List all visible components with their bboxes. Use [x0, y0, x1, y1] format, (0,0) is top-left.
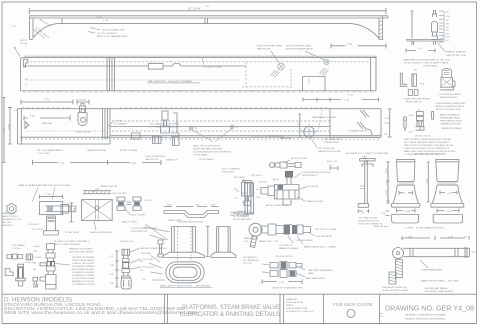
- svg-text:DRAIN PLUG OR: DRAIN PLUG OR: [100, 185, 118, 188]
- svg-text:VALVE 1/8" STAINLESS STEEL: VALVE 1/8" STAINLESS STEEL: [272, 287, 304, 290]
- svg-text:OF THE CONNECTOR AND: OF THE CONNECTOR AND: [72, 277, 95, 280]
- svg-text:5/16: 5/16: [409, 115, 414, 117]
- svg-text:HOLE FOR RIGHT HAND: HOLE FOR RIGHT HAND: [257, 45, 283, 48]
- svg-text:SOLDER 8BA NUTS OR UNDERSIDE: SOLDER 8BA NUTS OR UNDERSIDE: [193, 151, 231, 154]
- svg-text:27 SAY PENN: 27 SAY PENN: [65, 231, 79, 234]
- svg-text:1 1/2: 1 1/2: [427, 178, 429, 184]
- svg-text:CUT AWAY FOR: CUT AWAY FOR: [324, 138, 341, 141]
- svg-text:CENT: CENT: [143, 227, 150, 229]
- svg-text:EARLY SAFETY VALVE COVER — CAB: EARLY SAFETY VALVE COVER — CAB CASTING: [160, 284, 210, 287]
- svg-text:1 x 5/16: 1 x 5/16: [144, 200, 153, 202]
- svg-text:'ON': 'ON': [274, 241, 279, 243]
- svg-text:SLIDE SQUARE JUMP: SLIDE SQUARE JUMP: [102, 29, 125, 32]
- svg-text:INTO PIPE TOP: INTO PIPE TOP: [131, 231, 147, 233]
- svg-text:PAINTED WHITE: PAINTED WHITE: [440, 96, 458, 99]
- svg-text:THREAD BODY 1/4x40 CENTRALLY: THREAD BODY 1/4x40 CENTRALLY: [69, 248, 93, 251]
- svg-text:1/16 7/32 1/4 3/16: 1/16 7/32 1/4 3/16: [275, 256, 293, 258]
- svg-text:OF TRAVEL POINTS: OF TRAVEL POINTS: [72, 283, 95, 286]
- svg-text:5/32x40 UNION: 5/32x40 UNION: [316, 236, 332, 238]
- svg-text:1/32 PLUG: 1/32 PLUG: [32, 229, 43, 231]
- svg-text:1/8: 1/8: [110, 274, 114, 276]
- svg-text:LOCK NUT: LOCK NUT: [28, 224, 40, 226]
- svg-text:7 1/8: 7 1/8: [344, 100, 350, 102]
- svg-text:THICKNESS OF PLATE AND: THICKNESS OF PLATE AND: [72, 256, 95, 259]
- svg-text:GLUED SPLINE IN SHAFT: GLUED SPLINE IN SHAFT: [382, 289, 409, 292]
- svg-text:TWO DRAIN: TWO DRAIN: [12, 244, 25, 247]
- svg-text:OF 1/4" 67SWG TO USE OF SAFETY: OF 1/4" 67SWG TO USE OF SAFETY VALVE: [404, 62, 449, 65]
- svg-text:THROUGH HOLE A TO FIX UP 67MM: THROUGH HOLE A TO FIX UP 67MM BLOCK: [404, 147, 450, 150]
- svg-text:RACE FITTED 2: RACE FITTED 2: [2, 215, 19, 218]
- svg-text:STEAM PIPES: STEAM PIPES: [324, 141, 339, 144]
- svg-text:SEE REMT UNDERSIDE: SEE REMT UNDERSIDE: [308, 270, 333, 272]
- svg-text:SCALE: SCALE: [286, 304, 294, 307]
- svg-text:2 1/4: 2 1/4: [103, 20, 109, 22]
- svg-text:5/16: 5/16: [446, 16, 451, 18]
- svg-text:1 1/2: 1 1/2: [46, 194, 52, 196]
- svg-text:FRAME BALL: FRAME BALL: [2, 212, 16, 215]
- svg-text:SIXTEENTH TO ONE FOOT: SIXTEENTH TO ONE FOOT: [286, 311, 315, 313]
- svg-text:7 5/8: 7 5/8: [387, 180, 389, 186]
- svg-text:PLATFORMS, STEAM BRAKE VALVE: PLATFORMS, STEAM BRAKE VALVE: [182, 304, 280, 311]
- svg-text:PLATFORM LAMP IRONS: PLATFORM LAMP IRONS: [404, 97, 430, 100]
- svg-text:BRAKE VALVE BODY — BRASS: BRAKE VALVE BODY — BRASS: [304, 246, 337, 249]
- svg-text:3/8: 3/8: [110, 283, 114, 285]
- svg-text:TANK BAY: TANK BAY: [42, 122, 53, 125]
- svg-text:5/16 x 1/4 BRASS: 5/16 x 1/4 BRASS: [222, 168, 240, 171]
- svg-text:INTO VALVE. BRONZE CHECK IF TH: INTO VALVE. BRONZE CHECK IF THE BMY-2: [404, 141, 450, 144]
- svg-text:1 7/16: 1 7/16: [446, 193, 453, 195]
- svg-text:7 5/8: 7 5/8: [384, 123, 390, 125]
- svg-text:—: —: [254, 265, 257, 267]
- svg-text:C: C: [379, 313, 383, 319]
- svg-text:3 1/2: 3 1/2: [97, 17, 103, 19]
- svg-text:3 HIDE OF 1/8: 3 HIDE OF 1/8: [236, 211, 251, 213]
- svg-text:ALTN: ALTN: [273, 178, 279, 181]
- svg-text:TO FIX SEATS: TO FIX SEATS: [199, 158, 214, 161]
- svg-text:BENT TO FIT HANGER PLATE: BENT TO FIT HANGER PLATE: [97, 35, 128, 38]
- svg-text:8 x 40N: 8 x 40N: [114, 121, 122, 123]
- svg-text:WITH TURN CAST: WITH TURN CAST: [233, 218, 252, 221]
- svg-text:7/16: 7/16: [256, 197, 261, 199]
- svg-text:1 7/8: 1 7/8: [279, 282, 285, 284]
- svg-text:4 OFF 8BA CSK SCREWS TO FIX: 4 OFF 8BA CSK SCREWS TO FIX: [412, 153, 446, 156]
- svg-text:5/32 PIPE TO: 5/32 PIPE TO: [279, 245, 293, 247]
- svg-text:LOCO MODEL LAMPS: LOCO MODEL LAMPS: [438, 93, 461, 96]
- svg-text:1/4: 1/4: [464, 237, 468, 239]
- svg-text:BRASS PLUG: BRASS PLUG: [244, 237, 258, 240]
- svg-text:3/16: 3/16: [242, 193, 247, 195]
- svg-text:16 swg: 16 swg: [20, 43, 28, 45]
- svg-text:1/8 1/16 OR 1/4: 1/8 1/16 OR 1/4: [415, 136, 431, 138]
- svg-text:7/8: 7/8: [236, 191, 240, 193]
- svg-text:5/32x40: 5/32x40: [310, 186, 319, 188]
- svg-text:CUT HOLE FOR: CUT HOLE FOR: [318, 148, 335, 150]
- svg-text:2 5/8: 2 5/8: [131, 163, 137, 165]
- svg-text:30° TOP: 30° TOP: [243, 263, 252, 265]
- svg-text:7 7/8: 7 7/8: [44, 99, 50, 101]
- svg-text:1: 1: [405, 193, 407, 195]
- svg-text:UPDATED DESIGN BY DOUG HEWSON: UPDATED DESIGN BY DOUG HEWSON: [405, 318, 446, 321]
- svg-text:4'-3": 4'-3": [12, 26, 17, 28]
- svg-text:1/2: 1/2: [234, 198, 238, 200]
- svg-text:5/16 x 1/4: 5/16 x 1/4: [327, 161, 337, 163]
- svg-text:5/16x40 UNION & 5/32 PIPE: 5/16x40 UNION & 5/32 PIPE: [302, 172, 331, 174]
- svg-text:WEB SITE www.the-hewsons.co.u: WEB SITE www.the-hewsons.co.uk and E Mai…: [4, 310, 198, 315]
- svg-text:1 1/4: 1 1/4: [348, 95, 354, 97]
- svg-text:1/4: 1/4: [472, 252, 476, 254]
- svg-text:COVER BAND: COVER BAND: [423, 65, 438, 68]
- svg-text:7/8: 7/8: [142, 279, 146, 281]
- svg-text:MUST REMAIN THE SAME.: MUST REMAIN THE SAME.: [72, 268, 95, 271]
- svg-text:2 1/8: 2 1/8: [448, 237, 454, 239]
- svg-text:DUCT COVER: DUCT COVER: [131, 215, 146, 217]
- svg-text:(TAPESTRY WHEEL): (TAPESTRY WHEEL): [441, 127, 462, 130]
- svg-text:NO DRILL HOLE AND CENTRALLY: NO DRILL HOLE AND CENTRALLY: [54, 240, 90, 243]
- svg-text:BRASS ROD: BRASS ROD: [236, 213, 249, 216]
- svg-text:ALTN OIL HOLE: ALTN OIL HOLE: [291, 157, 308, 160]
- svg-text:1 9x16 HOLES FOR: 1 9x16 HOLES FOR: [145, 156, 165, 158]
- svg-text:TANK FILLER: TANK FILLER: [257, 48, 271, 51]
- svg-text:ORIGINALLY DESIGNED BY RON BRA: ORIGINALLY DESIGNED BY RON BRAY: [405, 314, 446, 317]
- svg-text:COVER — IN CAST BRASS OR STEEL: COVER — IN CAST BRASS OR STEEL: [405, 227, 445, 230]
- svg-text:SAND 'D' RING: SAND 'D' RING: [122, 221, 137, 224]
- svg-text:1/4 WATER VALVE: 1/4 WATER VALVE: [348, 130, 367, 133]
- svg-text:SAND HOPPER EYES: SAND HOPPER EYES: [90, 231, 113, 234]
- svg-text:1/4: 1/4: [256, 189, 260, 191]
- svg-text:LUBRICATOR & PAINTING DETAILS: LUBRICATOR & PAINTING DETAILS: [180, 311, 280, 318]
- svg-text:1/8" x 1/8" BRASS ANGLE: 1/8" x 1/8" BRASS ANGLE: [37, 149, 63, 152]
- svg-text:CUT AT ANGLE: CUT AT ANGLE: [243, 259, 259, 262]
- svg-text:BRAKE 'OFF': BRAKE 'OFF': [259, 240, 273, 243]
- svg-text:5/16x32 x 1/8: 5/16x32 x 1/8: [120, 241, 134, 243]
- svg-text:1 3/16: 1 3/16: [346, 44, 353, 46]
- svg-text:DETERMINED BY LOCATION: DETERMINED BY LOCATION: [72, 274, 95, 277]
- svg-text:1/4: 1/4: [382, 213, 386, 215]
- svg-text:1 1/4 OIL: 1 1/4 OIL: [78, 100, 88, 102]
- svg-text:DOWN SHUTS FOR: DOWN SHUTS FOR: [358, 221, 379, 223]
- svg-text:BALL SEATS ALTN: BALL SEATS ALTN: [306, 277, 325, 280]
- svg-text:NUT HOLE: NUT HOLE: [234, 177, 246, 179]
- svg-text:HALF: HALF: [308, 272, 314, 275]
- svg-text:3/8 PLT: 3/8 PLT: [20, 40, 28, 42]
- svg-text:1/32 SLR: 1/32 SLR: [258, 182, 268, 184]
- svg-text:THE DIAMOND PLATERLS: THE DIAMOND PLATERLS: [72, 265, 95, 268]
- svg-text:1/16" RAD SLR OR: 1/16" RAD SLR OR: [358, 217, 377, 220]
- svg-text:CUT 45° TO ANGLE: CUT 45° TO ANGLE: [97, 32, 117, 35]
- svg-text:WITH TO 2/47 AUG 1938: WITH TO 2/47 AUG 1938: [436, 108, 462, 111]
- svg-text:PIPE IF SOFT SOLDER AND OPEN E: PIPE IF SOFT SOLDER AND OPEN END OF THE: [404, 144, 454, 147]
- svg-text:DRILL TWO 5/32 HOLES IN: DRILL TWO 5/32 HOLES IN: [193, 146, 221, 148]
- svg-text:USE THK NUT ROD: USE THK NUT ROD: [446, 55, 466, 57]
- svg-text:BRAKE CYLINDER: BRAKE CYLINDER: [279, 247, 299, 250]
- svg-text:FOR WORKING LAMPS SEE: FOR WORKING LAMPS SEE: [436, 102, 465, 105]
- svg-text:LUBRICATOR: LUBRICATOR: [76, 131, 90, 134]
- svg-text:1/4: 1/4: [446, 34, 450, 36]
- svg-text:1/4: 1/4: [110, 256, 114, 258]
- svg-text:ASSEMBLE TOPS AT FULL: ASSEMBLE TOPS AT FULL: [72, 280, 95, 283]
- svg-text:UPRIGHT CAN BE CHANGED: UPRIGHT CAN BE CHANGED: [72, 259, 95, 262]
- svg-text:1 7/16: 1 7/16: [445, 211, 452, 213]
- svg-text:SIX 3BA BOLTS TO WELD TO PLATF: SIX 3BA BOLTS TO WELD TO PLATFORM: [346, 152, 388, 155]
- svg-text:FROM SUPPLY: FROM SUPPLY: [302, 175, 318, 177]
- svg-text:50MM WHISTLE FULCRUM BRKTS - B: 50MM WHISTLE FULCRUM BRKTS - BILL 7/16: [403, 60, 451, 62]
- svg-text:MODEL THEATRE 64-PROF: MODEL THEATRE 64-PROF: [436, 105, 465, 108]
- svg-text:DRAWING NO. GER Y4_08: DRAWING NO. GER Y4_08: [385, 304, 474, 313]
- svg-text:1 1/4: 1 1/4: [74, 207, 76, 213]
- svg-text:TO FIX SEATS: TO FIX SEATS: [193, 154, 208, 157]
- svg-text:TOP TUBE: TOP TUBE: [142, 259, 153, 261]
- svg-text:OUTLINE OF TANK: OUTLINE OF TANK: [203, 66, 223, 69]
- svg-text:5' 6": 5' 6": [205, 6, 209, 8]
- svg-text:10' 10 3/4": 10' 10 3/4": [188, 7, 201, 11]
- svg-text:FLAT STRIP: FLAT STRIP: [222, 171, 235, 174]
- svg-text:1/16 1/16 1/32: 1/16 1/16 1/32: [112, 193, 127, 195]
- svg-text:CAB A PLATFORM: CAB A PLATFORM: [87, 149, 106, 152]
- svg-text:5/16: 5/16: [33, 251, 38, 253]
- svg-text:1/8: 1/8: [384, 134, 388, 136]
- svg-text:1/4: 1/4: [446, 20, 450, 22]
- svg-text:HOLE FOR RIGHT HAND: HOLE FOR RIGHT HAND: [286, 45, 312, 48]
- svg-text:1 1/8: 1 1/8: [384, 118, 390, 120]
- svg-text:5/8: 5/8: [140, 261, 144, 263]
- svg-text:BRAKE CROSS SHAFT — 3/16" BAR: BRAKE CROSS SHAFT — 3/16" BAR: [421, 280, 459, 283]
- svg-text:FRONT OF TANK: FRONT OF TANK: [120, 149, 138, 152]
- svg-text:5/32 PLUG: 5/32 PLUG: [251, 175, 262, 177]
- svg-text:TO SUIT: TO SUIT: [33, 257, 42, 259]
- svg-text:USE VALVE SCREW OR: USE VALVE SCREW OR: [382, 286, 407, 289]
- svg-text:FIG VALVE IS: FIG VALVE IS: [243, 256, 257, 259]
- svg-text:WATER FILTER ROSE: WATER FILTER ROSE: [318, 150, 341, 153]
- svg-text:CUT BALANCE WHILE AWAY: CUT BALANCE WHILE AWAY: [150, 123, 180, 126]
- svg-text:3/8: 3/8: [446, 30, 450, 32]
- svg-text:1/2: 1/2: [329, 165, 333, 167]
- svg-text:3/16 RAD (HIGH HOLES): 3/16 RAD (HIGH HOLES): [178, 221, 203, 224]
- svg-text:1 1/4: 1 1/4: [362, 156, 368, 158]
- svg-text:FRENCH SCREWS: FRENCH SCREWS: [446, 52, 466, 54]
- svg-text:HAND RAIL: HAND RAIL: [280, 137, 292, 140]
- svg-text:DRAWN BY: DRAWN BY: [286, 298, 298, 301]
- svg-text:1/32 RAD: 1/32 RAD: [141, 252, 151, 255]
- svg-text:CYLINDER DRAIN: CYLINDER DRAIN: [294, 239, 313, 242]
- svg-text:WIRE (WATTS) WITH: WIRE (WATTS) WITH: [440, 120, 462, 123]
- svg-text:GEAR ON REAR SHAFT AND PHILLIP: GEAR ON REAR SHAFT AND PHILLIPS CLUTCHES: [18, 184, 71, 187]
- svg-text:COCKS: COCKS: [12, 248, 20, 250]
- svg-text:5/16: 5/16: [110, 265, 115, 267]
- svg-text:1/32: 1/32: [409, 132, 414, 134]
- svg-text:2 1/8: 2 1/8: [4, 128, 6, 134]
- svg-text:◁: ◁: [27, 77, 29, 80]
- svg-text:8BA BOLTS: 8BA BOLTS: [166, 159, 178, 162]
- svg-text:BAY LEG: BAY LEG: [2, 221, 11, 224]
- svg-text:THICKNESS OF LOWER END: THICKNESS OF LOWER END: [72, 272, 95, 274]
- svg-text:USE VALVE COVER IN PART: USE VALVE COVER IN PART: [424, 290, 454, 293]
- svg-text:NEW OR 3mm: NEW OR 3mm: [374, 226, 389, 228]
- svg-text:CUT PIPE TO CLEAR: CUT PIPE TO CLEAR: [315, 228, 337, 231]
- svg-text:STRANDS OF FUSE: STRANDS OF FUSE: [440, 123, 461, 126]
- svg-text:GLAND SOLDER: GLAND SOLDER: [306, 200, 324, 203]
- svg-text:1/4: 1/4: [446, 27, 450, 29]
- svg-text:1 7/16: 1 7/16: [406, 237, 413, 239]
- svg-text:1/8: 1/8: [33, 263, 37, 265]
- svg-text:3/4: 3/4: [140, 270, 144, 272]
- svg-text:1/4: 1/4: [446, 40, 450, 42]
- svg-text:5/16: 5/16: [420, 84, 425, 86]
- svg-text:AND AT THE LOWER CHAMBER: AND AT THE LOWER CHAMBER: [69, 251, 93, 254]
- svg-text:ALTN OIL WAY 40 TPI: ALTN OIL WAY 40 TPI: [266, 204, 288, 207]
- svg-text:INJECTOR WATER VALVE: INJECTOR WATER VALVE: [286, 48, 313, 51]
- svg-text:TOP 5/PLUG: TOP 5/PLUG: [142, 267, 155, 269]
- svg-text:SHIM NUT: SHIM NUT: [2, 225, 13, 227]
- svg-text:PLATFORM/TANK TOPS AND: PLATFORM/TANK TOPS AND: [193, 148, 223, 151]
- svg-text:FROM 8 AMP FUSE: FROM 8 AMP FUSE: [440, 117, 460, 120]
- svg-text:ADJUST PINNED NIPPLE: ADJUST PINNED NIPPLE: [141, 247, 167, 250]
- svg-text:1 5/8: 1 5/8: [9, 124, 11, 130]
- svg-text:40' SCREWS: 40' SCREWS: [114, 124, 128, 126]
- svg-text:1/4x40: 1/4x40: [33, 246, 40, 248]
- svg-text:1 3/16: 1 3/16: [404, 211, 411, 213]
- svg-text:ONE INCH AND ONE: ONE INCH AND ONE: [286, 307, 308, 310]
- svg-text:1 1/4: 1 1/4: [360, 213, 366, 215]
- svg-text:MAKE THUMBNICE: MAKE THUMBNICE: [440, 114, 460, 117]
- svg-text:3/8: 3/8: [446, 24, 450, 26]
- svg-text:STEAM BRAKE ARM: STEAM BRAKE ARM: [421, 269, 442, 272]
- svg-text:2 7/8: 2 7/8: [59, 163, 65, 165]
- svg-text:THE 1/16" AW COPPER PIPE A SOF: THE 1/16" AW COPPER PIPE A SOFT SOLDER: [404, 138, 452, 141]
- svg-text:1 1/2: 1 1/2: [298, 122, 300, 128]
- svg-text:1 1/2: 1 1/2: [418, 48, 424, 50]
- svg-text:1/4: 1/4: [446, 12, 450, 14]
- svg-text:3/8: 3/8: [33, 269, 37, 271]
- svg-text:FRONT BRKTS: FRONT BRKTS: [406, 101, 422, 103]
- svg-text:THE RIM CAST BRASS: THE RIM CAST BRASS: [424, 287, 448, 290]
- svg-text:BULL TO TAKE GRUBNUT: BULL TO TAKE GRUBNUT: [54, 243, 81, 246]
- svg-text:1 1/2: 1 1/2: [309, 78, 311, 84]
- svg-text:TO ADJUST THE FLOW BUT: TO ADJUST THE FLOW BUT: [72, 262, 95, 265]
- svg-text:FIVE INCH GAUGE: FIVE INCH GAUGE: [333, 302, 373, 307]
- svg-text:TANK BOLTS: TANK BOLTS: [145, 158, 159, 161]
- svg-text:DOUG HEWSON: DOUG HEWSON: [286, 302, 303, 304]
- svg-text:5/16: 5/16: [446, 37, 451, 39]
- svg-text:DEGREES 10° ON: DEGREES 10° ON: [2, 219, 21, 221]
- svg-text:5/8: 5/8: [414, 70, 418, 72]
- svg-text:7/16: 7/16: [244, 241, 249, 243]
- svg-text:3 7/8: 3 7/8: [30, 116, 36, 118]
- svg-text:HANDBRAKE COLUMN: HANDBRAKE COLUMN: [312, 116, 336, 119]
- svg-text:1 1/2" LONG: 1 1/2" LONG: [37, 153, 50, 155]
